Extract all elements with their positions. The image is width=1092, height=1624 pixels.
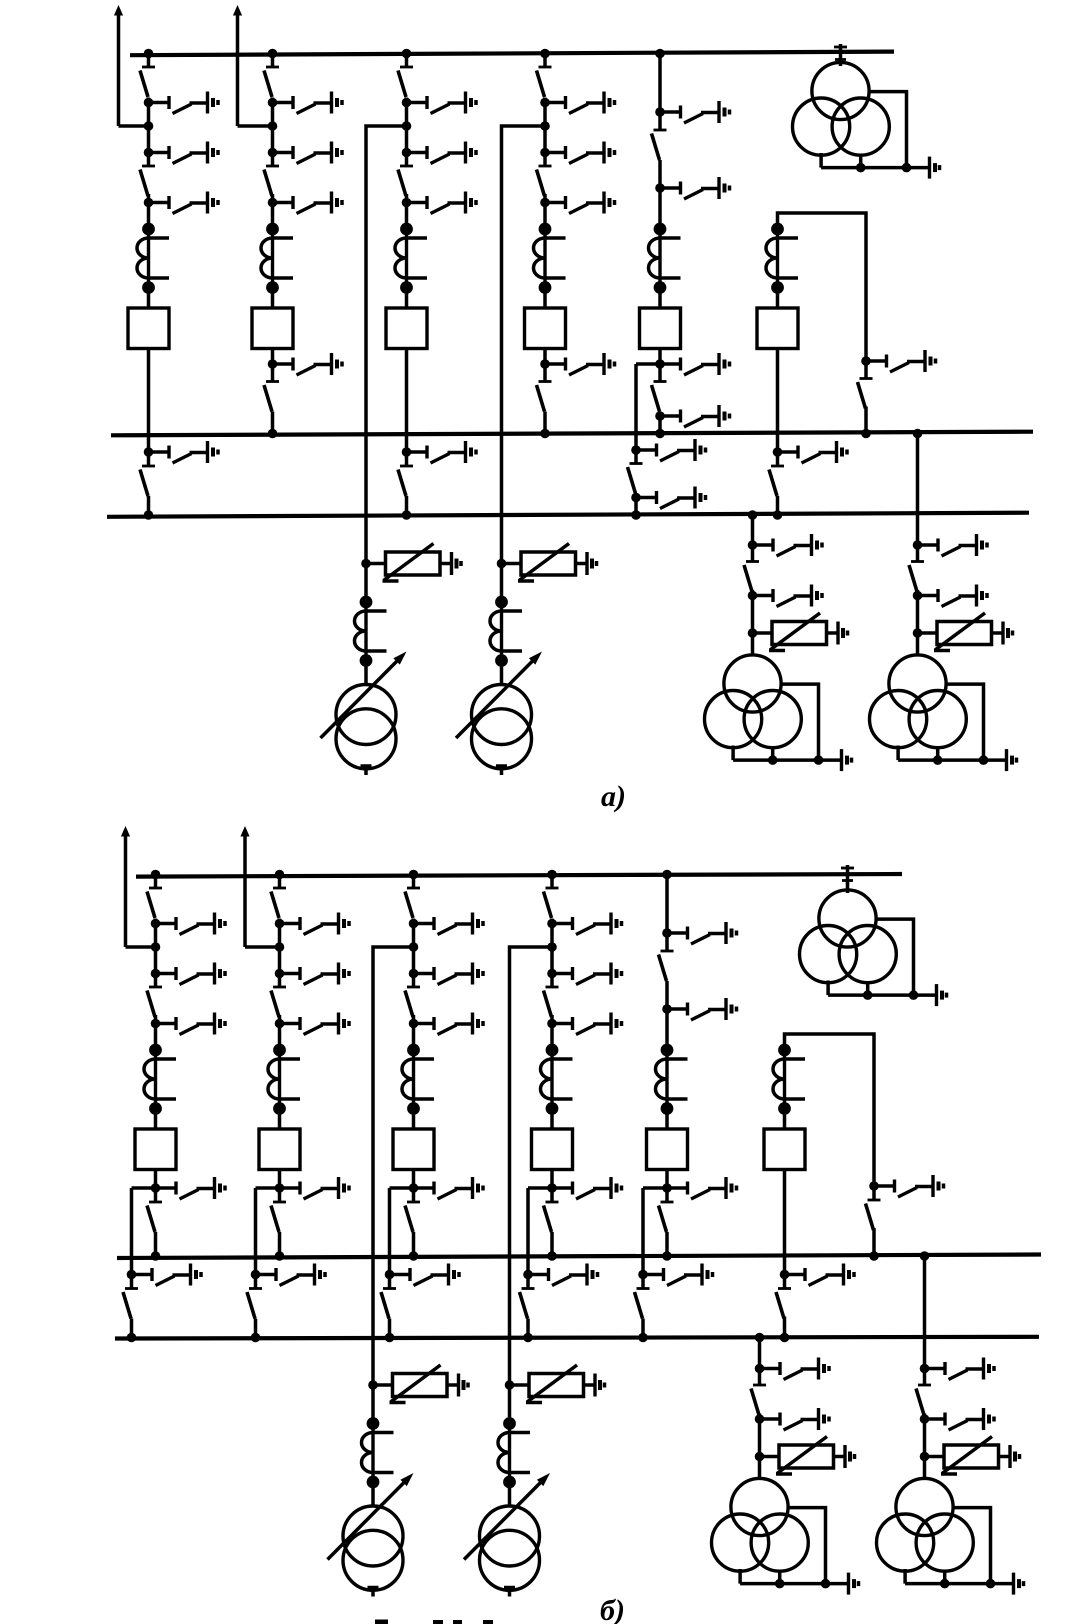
three-winding transformer T1 with neutral ground (scheme b) [800, 890, 947, 1006]
node feeder T2 on bus W3 (scheme a) [748, 510, 758, 520]
feeder chain: earthing switches, disconnector, arrester, transformer T3 (scheme a) [870, 534, 1017, 771]
current transformer TA6 (scheme b) [773, 1044, 805, 1115]
busbar W2 (scheme a, middle bus) [111, 432, 1033, 436]
circuit breaker Q6 (scheme b) [764, 1129, 805, 1170]
bay 3 top: disconnectors QS, earthing switches QSG, CT TA3, breaker Q3 (scheme a) [386, 49, 476, 349]
node feeder T2 on bus W3 (scheme b) [755, 1333, 765, 1343]
bay 5 top: disconnector QS, earthing switches, CT TA5, breaker Q5 (scheme a) [640, 49, 730, 349]
bay 2 top: disconnectors, earthing switches, CT, breaker (scheme b) [259, 870, 349, 1170]
transformer T1 bushing link at bus W1 (scheme b) [841, 865, 854, 885]
earthing switch bay 5 lower node (scheme a) [655, 405, 729, 427]
wire L2 to bay 2 (scheme b) [245, 945, 280, 949]
wire bay 6 tap to transfer disconnector (scheme b) [785, 1034, 875, 1186]
bay 3 top: disconnectors, earthing switches, CT, breaker (scheme b) [393, 870, 483, 1170]
wire TA6 to Q6 (scheme b) [783, 1109, 787, 1130]
svg-text:б): б) [600, 1594, 625, 1624]
wire bay 6 tap to transfer disconnector (scheme a) [778, 213, 867, 361]
wire bay 5 branch jog (scheme a) [636, 362, 660, 366]
bay 4 top: disconnectors, earthing switches, CT, breaker (scheme b) [532, 870, 622, 1170]
earthing switch at bay 5 node (scheme a) [655, 353, 729, 375]
feeder T5: arrester, CT, regulated transformer (scheme a) [456, 544, 597, 776]
disconnector bay 6 to bus W3 (scheme b) [776, 1275, 791, 1319]
earthing switch bay 6 lower (scheme b) [780, 1264, 854, 1286]
bay 6 lower: earthing switch + disconnector to bus W3 (scheme a) [769, 441, 847, 520]
current transformer TA6 (scheme a) [766, 223, 798, 294]
bay 1 lower: earthing switch + disconnector to bus W3 (scheme a) [140, 441, 218, 520]
bay 2 lower: earthing switch + disconnector to bus W2 (scheme a) [264, 353, 342, 438]
bay 1 top: disconnectors, earthing switches, CT, breaker (scheme b) [135, 870, 225, 1170]
busbar W3 (scheme a, bottom bus) [107, 513, 1029, 517]
wire transfer to bus W2 [864, 407, 868, 434]
wire bay 5 breaker to node (scheme a) [658, 349, 662, 365]
node bay 6 on bus W3 (scheme b) [780, 1333, 790, 1343]
feeder T4: arrester, CT, regulated transformer (scheme b) [328, 1365, 469, 1597]
line feeder L2 arrow (scheme a) [233, 5, 242, 126]
busbar W2 (scheme b, middle bus) [117, 1255, 1041, 1259]
feeder chain: earthing switches, disconnector, arrester, transformer T3 (scheme b) [877, 1358, 1024, 1595]
bay 5 top: disconnector, earthing switches, CT, breaker (scheme b) [647, 870, 737, 1170]
wire bay 2 breaker to node (scheme b) [278, 1170, 282, 1189]
wire bus W3 to T2 chain (scheme b) [758, 1338, 762, 1369]
busbar W1 (scheme a, top bus) [130, 52, 894, 56]
bay 1 lower: double-bus selection disconnectors + earthing switches (scheme b) [123, 1177, 225, 1342]
wire left branch to bus W3 [634, 498, 638, 516]
node left branch on bus W3 [631, 510, 641, 520]
wire bay 3 breaker to bus W2 crossing (scheme a) [405, 349, 409, 453]
node transfer on bus W2 (scheme b) [869, 1251, 879, 1261]
wire bay 6 breaker down crossing bus W2 (scheme b) [783, 1170, 787, 1275]
wire link to T1 (scheme b) [846, 883, 850, 893]
wire tap bay 3 to transformer T4 feeder (scheme b) [373, 947, 414, 1385]
circuit breaker Q6 (scheme a) [757, 308, 798, 349]
feeder T4: arrester, CT, regulated transformer (scheme a) [321, 544, 462, 776]
bay 2 lower: double-bus selection disconnectors + earthing switches (scheme b) [247, 1177, 349, 1342]
wire bay 4 breaker to node (scheme b) [550, 1170, 554, 1189]
disconnector transfer wire to bus W2 (scheme b) [866, 1186, 881, 1230]
bay 3 lower: earthing switch + disconnector to bus W3 (scheme a) [398, 441, 476, 520]
disconnector bay 5 to bus W2 (scheme a) [652, 368, 667, 412]
node transfer on bus W2 [861, 429, 871, 439]
wire bay 5 breaker to node (scheme b) [665, 1170, 669, 1189]
bay 4 lower: double-bus selection disconnectors + earthing switches (scheme b) [520, 1177, 622, 1342]
bay 5 lower: double-bus selection disconnectors + earthing switches (scheme b) [635, 1177, 737, 1342]
wire tap bay 3 to transformer T4 feeder (scheme a) [366, 126, 407, 564]
wire bay 5 left branch down (scheme a) [634, 364, 638, 450]
svg-text:а): а) [601, 780, 626, 813]
disconnector transfer wire to bus W2 (scheme a) [858, 365, 873, 409]
busbar W3 (scheme b, bottom bus) [115, 1337, 1039, 1339]
wire bay 6 to bus W3 [783, 1317, 787, 1338]
disconnector left branch (scheme a) [628, 450, 643, 494]
node feeder T3 on bus W2 (scheme b) [920, 1251, 930, 1261]
wire L1 to bay 1 [119, 124, 149, 128]
earthing switch on left branch (scheme a) [631, 439, 705, 461]
three-winding transformer T1 with neutral ground (scheme a) [793, 62, 940, 178]
node feeder T3 on bus W2 (scheme a) [913, 429, 923, 439]
wire tap bay 4 to transformer T5 feeder (scheme a) [502, 126, 546, 564]
line feeder L2 arrow (scheme b) [240, 826, 249, 947]
bay 2 top: disconnectors QS, earthing switches QSG, CT TA2, breaker Q2 (scheme a) [252, 49, 342, 349]
busbar W1 (scheme b, top bus) [136, 874, 902, 877]
wire bay 1 breaker to bus W2 crossing (scheme a) [147, 349, 151, 453]
line feeder L1 arrow (scheme b) [121, 826, 130, 947]
feeder chain: earthing switches, disconnector, arrester, transformer T2 (scheme b) [712, 1358, 859, 1595]
bay 1 top: disconnectors QS, earthing switches QSG, CT TA1, breaker Q1 (scheme a) [128, 49, 218, 349]
wire bay 1 breaker to node (scheme b) [154, 1170, 158, 1189]
bay 4 lower: earthing switch + disconnector to bus W2 (scheme a) [537, 353, 615, 438]
wire bus W2 to T3 chain crossing bus W3 (scheme b) [923, 1256, 927, 1369]
wire bay 2 breaker to node (scheme a) [271, 349, 275, 365]
earthing switch on transfer wire (scheme b) [869, 1175, 943, 1197]
transformer T1 bushing link at bus W1 (scheme a) [834, 44, 847, 64]
wire bay 5 to bus W2 dot [658, 416, 662, 434]
bay 4 top: disconnectors QS, earthing switches QSG, CT TA4, breaker Q4 (scheme a) [525, 49, 615, 349]
node bay 5 on bus W2 [655, 429, 665, 439]
wire bay 6 breaker down crossing bus W2 (scheme a) [776, 349, 780, 453]
wire bay 4 breaker to node (scheme a) [543, 349, 547, 365]
wire L1 to bay 1 (scheme b) [126, 945, 156, 949]
wire link to T1 [839, 62, 843, 66]
wire tap bay 4 to transformer T5 feeder (scheme b) [510, 947, 553, 1385]
wire L2 to bay 2 [238, 124, 273, 128]
caption glyph tops (clipped at page edge) [375, 1620, 388, 1624]
earthing switch left branch lower (scheme a) [631, 487, 705, 509]
wire TA6 to Q6 [776, 288, 780, 309]
feeder T5: arrester, CT, regulated transformer (scheme b) [464, 1365, 605, 1597]
wire transfer to bus W2 (scheme b) [872, 1228, 876, 1256]
wire bus W2 to T3 chain crossing bus W3 [916, 434, 920, 546]
bay 3 lower: double-bus selection disconnectors + earthing switches (scheme b) [381, 1177, 483, 1342]
feeder chain: earthing switches, disconnector, arrester, transformer T2 (scheme a) [705, 534, 852, 771]
earthing switch on transfer wire (scheme a) [861, 350, 935, 372]
line feeder L1 arrow (scheme a) [114, 5, 123, 126]
wire bay 3 breaker to node (scheme b) [412, 1170, 416, 1189]
wire bus W3 to T2 chain [751, 515, 755, 545]
